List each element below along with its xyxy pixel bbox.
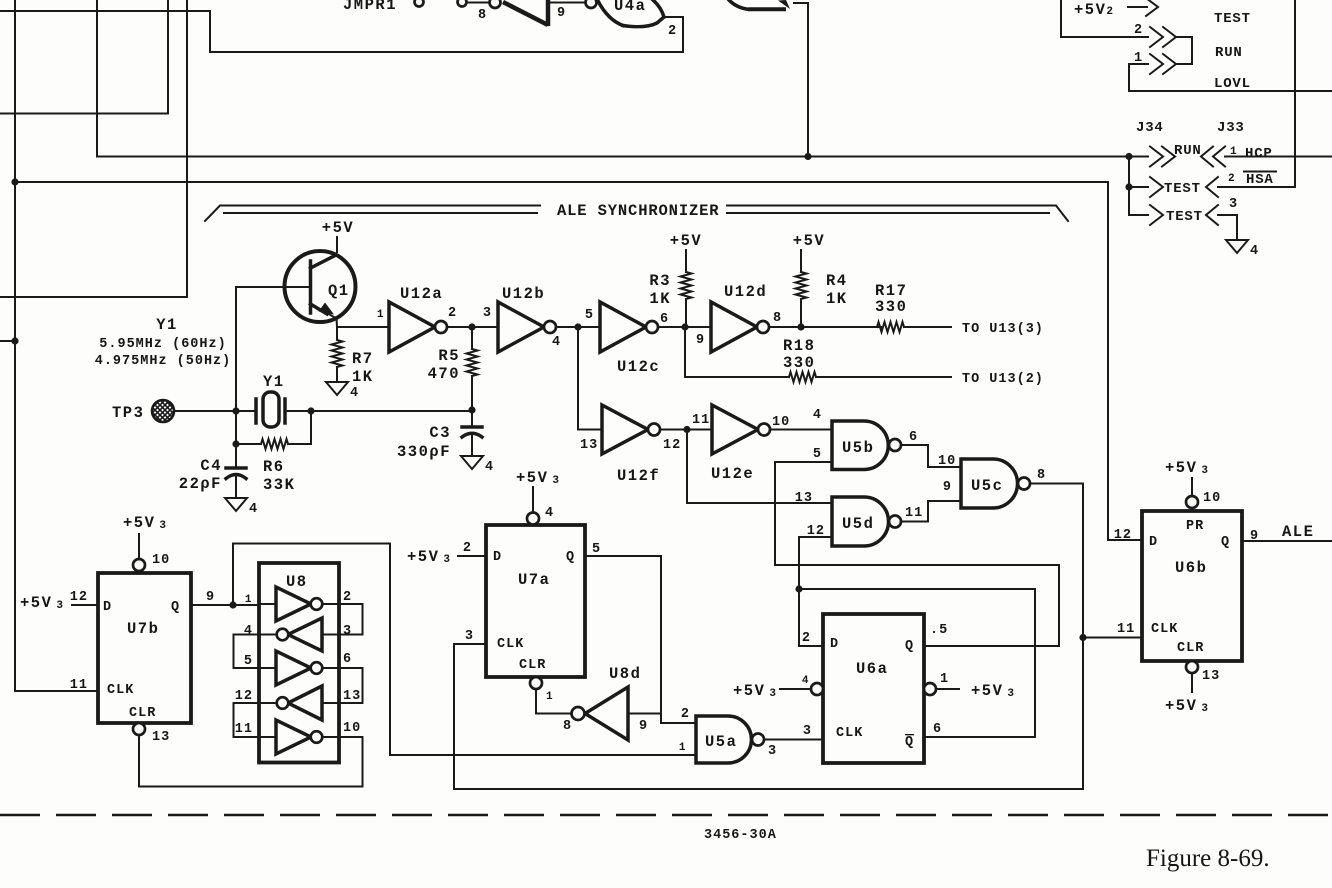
svg-text:U5d: U5d [842,515,874,533]
svg-text:8: 8 [1037,468,1046,483]
wire: main horizontal bus to J34 RUN [97,0,1148,157]
svg-text:1: 1 [377,309,384,321]
svg-text:D: D [103,600,112,615]
svg-text:330: 330 [783,354,815,372]
resistor R6 [261,439,288,449]
svg-text:U7b: U7b [127,620,159,638]
wire to U6b CLK [1083,637,1142,639]
wire U5c out to vertical rail [1030,484,1083,790]
svg-text:U12b: U12b [502,285,545,303]
wire +5V to collector [336,237,338,252]
svg-text:U12c: U12c [617,358,660,376]
wire pin12-pin11 loop [234,703,260,737]
svg-text:9: 9 [639,719,648,734]
svg-text:U5a: U5a [705,733,737,751]
svg-text:1K: 1K [826,290,848,308]
svg-text:+5V3: +5V3 [733,682,778,700]
svg-text:12: 12 [235,689,253,704]
svg-text:11: 11 [692,413,710,428]
svg-text:1: 1 [940,672,949,687]
svg-text:+5V3: +5V3 [123,514,168,532]
svg-text:1: 1 [546,691,553,703]
svg-text:5: 5 [813,447,822,462]
svg-text:U7a: U7a [518,571,550,589]
svg-text:CLK: CLK [497,637,524,652]
svg-text:5: 5 [244,654,253,669]
svg-text:6: 6 [933,722,942,737]
svg-text:10: 10 [152,553,170,568]
inverter U4b body fragment [503,2,548,25]
wire U8d input from Q junction [628,713,661,715]
svg-text:9: 9 [557,6,566,21]
NAND U5d [832,497,888,546]
svg-text:U4a: U4a [614,0,646,15]
svg-text:10: 10 [938,454,956,469]
inverter U12d [711,302,757,352]
node: C3 junction [468,406,475,413]
svg-text:2: 2 [1134,23,1143,38]
connector J33 double arrow RUN row [1201,147,1213,167]
flip-flop U6b [1142,511,1242,661]
svg-text:CLR: CLR [1177,641,1204,656]
svg-text:2: 2 [668,24,677,39]
svg-text:Q: Q [905,639,914,654]
svg-text:3456-30A: 3456-30A [704,828,777,843]
svg-text:8: 8 [563,719,572,734]
svg-text:10: 10 [343,721,361,736]
svg-text:33K: 33K [263,476,295,494]
node: U6b CLK tap [1079,634,1086,641]
wire U5d pin12 input [799,537,832,646]
svg-text:11: 11 [905,506,923,521]
svg-text:Q1: Q1 [328,282,350,300]
flip-flop U7b [98,573,191,723]
svg-text:12: 12 [1114,528,1132,543]
svg-text:8: 8 [478,8,487,23]
clear pin1 bubble +5V right [924,683,936,695]
svg-text:+5V3: +5V3 [1165,459,1210,477]
wire: vertical bus to page-left at y297 [0,0,187,297]
svg-text:3: 3 [768,744,777,759]
svg-text:+5V3: +5V3 [971,682,1016,700]
wire row2 jumper loop to row3 [1177,37,1192,64]
svg-text:C3: C3 [429,424,451,442]
svg-text:R6: R6 [263,458,285,476]
node: R3/R18 junction [681,323,688,330]
wire: stub to page edge y341 [0,340,15,342]
svg-text:LOVL: LOVL [1214,76,1251,92]
wire: left vertical rail to U7b CLK [15,0,98,691]
wire +5V2 bracket vertical [1061,0,1148,37]
wire U5b out to U5c pin10 [901,445,961,467]
transistor Q1 [285,251,356,322]
svg-text:1: 1 [679,742,686,754]
svg-text:1K: 1K [649,290,671,308]
node: junction at 808,156 [804,153,811,160]
node: feedback junction [795,585,802,592]
svg-text:470: 470 [428,365,460,383]
svg-text:4: 4 [545,506,554,521]
svg-text:Y1: Y1 [263,373,285,391]
svg-text:+5V: +5V [322,219,354,237]
svg-text:12: 12 [663,438,681,453]
svg-text:CLK: CLK [107,683,134,698]
svg-text:J33: J33 [1217,120,1245,136]
svg-text:11: 11 [235,722,253,737]
svg-text:CLK: CLK [1151,622,1178,637]
svg-text:4: 4 [244,624,253,639]
svg-text:U6b: U6b [1175,559,1207,577]
wire U12d out through R17 [769,326,881,328]
svg-text:U12e: U12e [711,465,754,483]
connector arrow J34 pin3 [1146,0,1158,16]
resistor R5 [471,327,473,349]
svg-text:R5: R5 [438,347,460,365]
wire into crystal [236,410,256,412]
svg-text:D: D [830,637,839,652]
svg-text:8: 8 [773,311,782,326]
svg-text:R18: R18 [783,337,815,355]
svg-text:TEST: TEST [1166,209,1203,225]
svg-text:Q: Q [905,735,914,750]
svg-text:4: 4 [813,408,822,423]
dashed section border [0,814,1332,817]
svg-text:.5: .5 [930,623,948,638]
svg-text:+5V3: +5V3 [20,594,65,612]
wire U12e out to U5b pin4 [770,429,832,431]
svg-text:+5V: +5V [793,232,825,250]
svg-text:4: 4 [350,386,359,401]
node: tap to U5d [683,426,690,433]
svg-text:2: 2 [448,306,457,321]
svg-text:Y1: Y1 [156,316,178,334]
wire crystal to C3 node [285,410,472,412]
svg-text:12: 12 [807,524,825,539]
flip-flop U6a [823,614,924,763]
wire row3 to ground [1218,215,1237,240]
wire CLR to U8d output [536,689,572,714]
svg-text:+5V2: +5V2 [1074,1,1115,19]
node: R6 left junction [232,440,239,447]
gate fragment upper right (NOR bottom) [729,0,748,9]
node: crystal left junction [232,407,239,414]
svg-text:Q: Q [171,600,180,615]
resistor R18 [789,372,816,382]
svg-text:U8: U8 [286,573,308,591]
inverter U12c [600,302,646,352]
wire U12c out to U12d [658,326,711,328]
svg-text:2: 2 [463,541,472,556]
svg-text:9: 9 [696,333,705,348]
svg-text:C4: C4 [200,457,222,475]
svg-text:5.95MHz (60Hz): 5.95MHz (60Hz) [99,337,226,352]
wire U12a out to U12b [447,326,498,328]
banner left segment [205,206,540,222]
NAND U5a [696,716,751,763]
svg-text:1K: 1K [352,368,374,386]
svg-text:PR: PR [1186,519,1204,534]
svg-text:D: D [1149,535,1158,550]
connector J34 arrow TEST row2 [1150,177,1163,197]
svg-text:22ρF: 22ρF [179,475,222,493]
node: junction on left rail y341 [11,337,18,344]
connector J34 double arrow RUN row [1150,147,1163,167]
wire U5a out to U6a CLK [764,739,823,741]
wire pin6-pin13 loop [339,668,363,703]
wire: net from U4a pin2 down-left to page edge [0,11,683,52]
wire HSA to right vertical [1218,186,1295,188]
ground at J33 pin3 [1226,240,1248,253]
svg-text:CLR: CLR [519,658,546,673]
svg-text:9: 9 [1250,529,1259,544]
wire inverter input to U4a bubble [550,2,585,4]
gate U4a body fragment (NOR bottom) [598,1,623,26]
wire HCP to page edge [1225,156,1332,158]
wire Q out to U8 pin1 [191,604,259,606]
wire: vertical bus exiting top-left, corner to page edge [0,0,168,114]
svg-text:12: 12 [70,590,88,605]
svg-text:1: 1 [1230,146,1237,158]
svg-text:2: 2 [343,590,352,605]
wire emitter row to U12a input [337,326,389,328]
svg-text:+5V3: +5V3 [407,548,452,566]
wire down to U5d pin13 [687,430,832,504]
connector double arrow J34 pin2 [1150,27,1163,47]
ground below C4 [225,498,247,511]
svg-text:11: 11 [70,678,88,693]
svg-text:4.975MHz (50Hz): 4.975MHz (50Hz) [95,354,232,369]
svg-text:13: 13 [152,730,170,745]
svg-text:U5b: U5b [842,439,874,457]
wire right vertical to HSA row [1294,0,1296,187]
svg-text:RUN: RUN [1174,143,1202,159]
svg-text:U5c: U5c [971,477,1003,495]
svg-text:TO U13(3): TO U13(3) [962,322,1044,337]
svg-text:9: 9 [943,480,952,495]
svg-text:2: 2 [802,631,811,646]
svg-text:JMPR1: JMPR1 [343,0,397,14]
connector double arrow J34 pin1 [1150,54,1163,74]
inverter U12e [712,405,758,454]
inverter U12f [602,405,648,454]
svg-text:6: 6 [343,652,352,667]
svg-text:HSA: HSA [1246,172,1274,188]
svg-text:HCP: HCP [1245,146,1273,162]
U8 inverter 5 [259,736,276,738]
svg-text:10: 10 [1203,491,1221,506]
flip-flop U7a [486,525,585,677]
svg-text:Q: Q [566,550,575,565]
wire row1 arrow lead [1128,6,1147,8]
svg-text:11: 11 [1117,622,1135,637]
wire pin2-pin3 loop [339,604,363,635]
svg-text:Figure 8-69.: Figure 8-69. [1146,845,1270,872]
wire U7b CLR to U8 pin10 loop [139,735,363,787]
svg-text:U12d: U12d [724,283,767,301]
U8 inverter 4 (points left) [322,702,339,704]
svg-text:Q: Q [1221,535,1230,550]
svg-text:3: 3 [343,624,352,639]
wire R18 branch [685,327,789,377]
banner right segment [727,206,1068,222]
wire U12b out to U12c [556,326,600,328]
node: Q riser junction [229,601,236,608]
svg-text:U12f: U12f [617,467,660,485]
Q output ALE [1242,540,1332,542]
jumper pin circle [415,0,424,7]
svg-text:TP3: TP3 [112,404,144,422]
svg-text:D: D [493,550,502,565]
resistor R7 [336,327,338,340]
U8 inverter 3 [259,667,276,669]
wire pin4-pin5 loop [234,635,260,669]
svg-text:CLK: CLK [836,726,863,741]
wire TEST row2 lead [1129,186,1148,188]
wire down to U12f input [578,327,602,430]
connector J33 arrow row3 [1206,205,1218,225]
NAND U5c [961,459,1018,508]
CLR bubble bottom U7a [530,677,542,689]
svg-text:13: 13 [795,491,813,506]
wire base to vertical rail [236,286,308,288]
svg-text:U12a: U12a [400,285,443,303]
resistor R17 [877,322,904,332]
wire vertical 1129 down to TEST rows [1128,157,1130,216]
svg-text:5: 5 [592,542,601,557]
wire U7a Q down to U5a pin2 [585,556,696,723]
svg-text:R3: R3 [649,272,671,290]
svg-text:TEST: TEST [1214,11,1251,27]
U8 inverter 2 (points left) [322,634,339,636]
inverter U8d (points left) [585,687,628,740]
NAND U5b [832,421,888,470]
node: tap to U12f [574,323,581,330]
wire U5d out to U5c pin9 [901,501,961,522]
wire U6a Qbar feedback [799,589,1035,737]
svg-text:4: 4 [552,335,561,350]
CLR bubble bottom U6b [1186,661,1198,673]
svg-text:13: 13 [1202,669,1220,684]
svg-text:TEST: TEST [1164,181,1201,197]
ground below R7 [326,382,348,395]
svg-text:+5V: +5V [670,232,702,250]
buffer array U8 box [259,563,339,763]
svg-text:ALE SYNCHRONIZER: ALE SYNCHRONIZER [557,202,719,220]
svg-text:4: 4 [485,460,494,475]
ground below C3 [461,456,483,469]
svg-text:RUN: RUN [1215,45,1243,61]
svg-text:9: 9 [206,590,215,605]
svg-text:+5V3: +5V3 [516,469,561,487]
svg-text:R7: R7 [352,350,374,368]
svg-text:2: 2 [681,707,690,722]
node: junction on left rail y181 [11,178,18,185]
wire riser to U5a pin1 [233,544,696,756]
svg-text:+5V3: +5V3 [1165,697,1210,715]
svg-text:3: 3 [483,306,492,321]
svg-text:330ρF: 330ρF [397,443,451,461]
node: junction main bus at 1129 [1125,153,1132,160]
svg-text:4: 4 [802,675,809,687]
svg-text:6: 6 [660,312,669,327]
inverter U4b output bubble (cut off) [490,0,501,8]
wire: from top gate output down to main bus [794,3,808,157]
svg-text:J34: J34 [1136,120,1164,136]
node: junction right of crystal [307,407,314,414]
CLR bubble bottom U7b [133,723,145,735]
svg-text:U8d: U8d [609,665,641,683]
svg-text:5: 5 [585,308,594,323]
svg-text:13: 13 [580,438,598,453]
svg-text:2: 2 [1228,173,1235,185]
wire U12f out to U12e [660,429,712,431]
wire jumper to U4b bubble [467,2,489,4]
svg-text:4: 4 [1250,244,1259,259]
svg-text:R4: R4 [826,272,848,290]
wire emitter down to junction [336,318,339,327]
svg-text:U6a: U6a [856,660,888,678]
node: R5 tap [468,323,475,330]
connector J34 arrow TEST row3 [1150,205,1163,225]
connector J33 arrow row2 [1206,177,1218,197]
wire TP3 to crystal node [174,410,236,412]
inverter U12b [498,302,544,352]
svg-text:13: 13 [343,689,361,704]
svg-text:4: 4 [249,502,258,517]
inverter U12a [389,302,435,352]
svg-text:3: 3 [1229,197,1238,212]
node: R4 junction [797,323,804,330]
wire base rail down to C4 [235,287,237,468]
svg-text:330: 330 [875,298,907,316]
svg-text:ALE: ALE [1282,523,1314,541]
svg-text:6: 6 [909,430,918,445]
wire CLK input U7a [454,643,486,645]
svg-text:TO U13(2): TO U13(2) [962,372,1044,387]
wire: long horizontal rail y182 to U6b pin 12 [15,182,1142,540]
U8 inverter 1 [259,603,276,605]
wire U5b pin5 input from U6a Q [775,462,1059,646]
svg-text:1: 1 [245,594,252,606]
svg-text:10: 10 [772,415,790,430]
svg-text:3: 3 [803,724,812,739]
gate U4a input bubble [586,0,597,8]
preset pin4 bubble +5V [811,683,823,695]
wire row3 left down to LOVL rail [1129,64,1332,91]
svg-text:CLR: CLR [129,706,156,721]
wire U7a CLK feedback rail [454,644,1083,789]
svg-text:3: 3 [465,629,474,644]
wire TEST row3 lead [1129,214,1148,216]
jumper pin circle [458,0,467,7]
